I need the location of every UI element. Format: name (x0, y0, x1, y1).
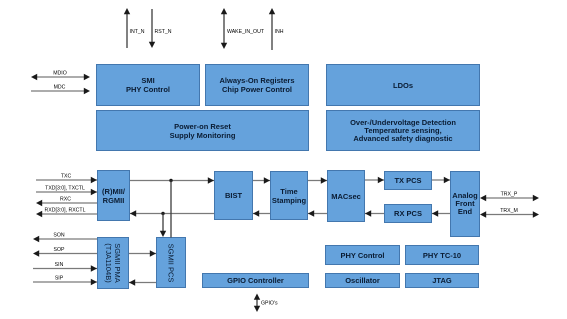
svg-text:WAKE_IN_OUT: WAKE_IN_OUT (227, 29, 265, 35)
svg-text:GPIO's: GPIO's (261, 301, 278, 307)
svg-text:RST_N: RST_N (155, 29, 172, 35)
svg-text:SIN: SIN (55, 262, 64, 268)
svg-text:INH: INH (275, 29, 284, 35)
svg-text:SON: SON (53, 233, 64, 239)
svg-text:MDIO: MDIO (53, 71, 67, 77)
svg-text:RXD[3:0], RXCTL: RXD[3:0], RXCTL (45, 208, 86, 214)
svg-text:INT_N: INT_N (130, 29, 145, 35)
svg-text:TRX_M: TRX_M (500, 208, 518, 214)
svg-text:SOP: SOP (54, 247, 65, 253)
svg-text:RXC: RXC (60, 197, 71, 203)
svg-text:TXC: TXC (61, 174, 72, 180)
svg-text:TRX_P: TRX_P (501, 192, 518, 198)
svg-text:TXD[3:0], TXCTL: TXD[3:0], TXCTL (45, 186, 85, 192)
svg-text:SIP: SIP (55, 276, 64, 282)
svg-text:MDC: MDC (54, 85, 66, 91)
